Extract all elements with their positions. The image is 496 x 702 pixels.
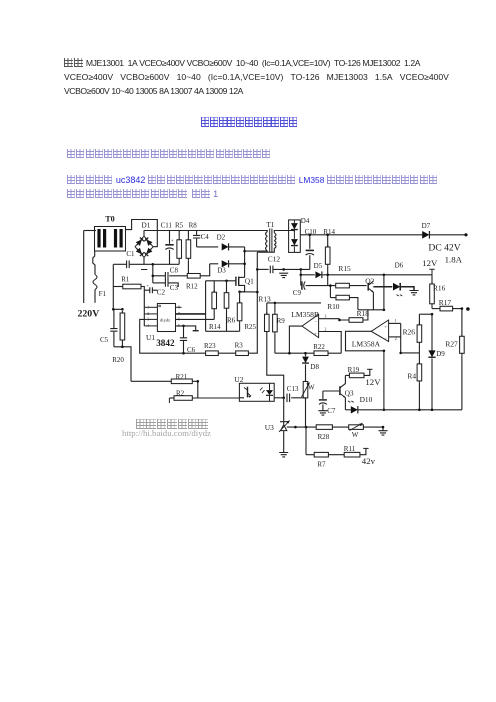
wire bbox=[319, 332, 342, 354]
svg-text:R25: R25 bbox=[244, 323, 256, 331]
capacitor C13 plates bbox=[287, 394, 290, 403]
wire bbox=[461, 309, 463, 337]
wire bbox=[274, 303, 276, 312]
ground right of W2 bbox=[379, 431, 388, 435]
wire bbox=[418, 314, 420, 325]
wire bbox=[305, 398, 307, 427]
resistor R11 bbox=[344, 452, 360, 457]
svg-text:R8: R8 bbox=[189, 222, 198, 230]
diode D7 symbol bbox=[422, 231, 429, 239]
svg-text:W: W bbox=[308, 384, 315, 392]
svg-text:220V: 220V bbox=[78, 309, 100, 320]
svg-text:D8: D8 bbox=[310, 363, 319, 371]
wire bbox=[229, 246, 245, 248]
wire: Q3 collector bbox=[340, 375, 346, 387]
diode D3 symbol bbox=[222, 260, 229, 267]
svg-text:R3: R3 bbox=[235, 341, 244, 349]
wire bbox=[322, 404, 324, 410]
wire: R14/R6/R25 bottom bus bbox=[206, 330, 240, 332]
resistor R2 bbox=[174, 396, 192, 401]
capacitor C13 bbox=[282, 397, 285, 400]
wire bbox=[305, 427, 307, 455]
wire bbox=[266, 303, 268, 314]
svg-text:3: 3 bbox=[325, 315, 327, 319]
wire bbox=[197, 246, 219, 248]
resistor R13 vert bbox=[266, 312, 268, 333]
diode D6 symbol bbox=[393, 283, 400, 291]
svg-text:D5: D5 bbox=[314, 262, 323, 270]
svg-text:C11: C11 bbox=[161, 222, 173, 230]
svg-text:R2: R2 bbox=[176, 389, 185, 397]
wire bbox=[363, 310, 368, 320]
svg-text:R23: R23 bbox=[204, 342, 216, 350]
wire: down to R21 bbox=[114, 347, 131, 382]
op-amp U1B LM358B bbox=[302, 314, 319, 337]
wire: 12V rail to right bbox=[322, 274, 432, 276]
wire bbox=[431, 358, 433, 409]
wire bbox=[218, 352, 235, 354]
U2 phototransistor bbox=[247, 387, 249, 398]
wire bbox=[431, 314, 433, 351]
svg-text:R22: R22 bbox=[313, 343, 325, 351]
svg-text:C7: C7 bbox=[327, 407, 336, 415]
svg-text:2: 2 bbox=[395, 337, 397, 341]
wire bbox=[389, 336, 401, 338]
wire bbox=[229, 263, 245, 265]
svg-text:R11: R11 bbox=[344, 445, 356, 453]
wire bbox=[345, 374, 349, 376]
wire: T0 to bridge AC right bbox=[126, 220, 158, 247]
wire bbox=[453, 308, 462, 310]
wire bbox=[291, 397, 305, 399]
svg-text:R17: R17 bbox=[439, 298, 452, 307]
svg-text:C9: C9 bbox=[293, 289, 302, 297]
wire bbox=[226, 310, 228, 331]
svg-text:4: 4 bbox=[147, 324, 149, 328]
capacitor C5 plates bbox=[110, 329, 117, 332]
wire: fb riser bbox=[400, 323, 402, 353]
IC U1 UC3842 bbox=[157, 304, 175, 332]
12V tap tick bbox=[429, 269, 434, 275]
wire: gate drive riser bbox=[205, 281, 207, 332]
svg-text:R7: R7 bbox=[317, 460, 326, 468]
wire bbox=[183, 326, 185, 338]
rectifier D4 block bbox=[289, 220, 301, 253]
wire bbox=[257, 268, 268, 270]
svg-text:R20: R20 bbox=[112, 356, 124, 364]
wire bbox=[176, 313, 206, 315]
bridge minus tick bbox=[141, 269, 147, 271]
wire bbox=[169, 275, 187, 277]
svg-text:R6: R6 bbox=[227, 317, 236, 325]
wire bbox=[305, 353, 307, 356]
wire: C12 node down to C9 bbox=[300, 269, 302, 285]
resistor R22 bbox=[314, 351, 328, 356]
wire bbox=[239, 323, 241, 332]
wire: source to R25 bbox=[239, 292, 241, 303]
wire bbox=[360, 448, 366, 454]
svg-text:R1: R1 bbox=[121, 275, 130, 283]
svg-text:12V: 12V bbox=[422, 258, 438, 268]
wire bbox=[275, 352, 306, 354]
wire bbox=[169, 231, 171, 244]
wire: DC- drop to C8/C3 bbox=[152, 264, 154, 283]
wire bbox=[389, 322, 401, 324]
wire: T1 secondary top to D4 bbox=[274, 231, 294, 233]
resistor R9 vert bbox=[274, 312, 276, 334]
wire: bridge top lead bbox=[143, 231, 145, 237]
resistor R25 vertical bbox=[239, 301, 241, 323]
resistor R8 bbox=[187, 238, 189, 260]
svg-text:D1: D1 bbox=[141, 221, 150, 230]
wire: R9 down to bus bbox=[274, 334, 276, 353]
wire bbox=[144, 289, 150, 291]
wire: R15 to Q2 bbox=[349, 285, 366, 287]
svg-text:R5: R5 bbox=[175, 222, 184, 230]
wire bbox=[306, 352, 315, 354]
wire: T1 primary bottom to Q1 drain bbox=[245, 250, 268, 252]
wire bbox=[283, 431, 285, 453]
capacitor C3 plates bbox=[165, 279, 168, 287]
wire bbox=[327, 235, 329, 247]
wire bbox=[305, 364, 307, 381]
transistor Q1 (MOSFET) bbox=[235, 277, 237, 286]
wire bbox=[210, 263, 219, 265]
svg-text:1.8A: 1.8A bbox=[445, 254, 463, 264]
wire: output loop to bias node bbox=[346, 331, 384, 351]
resistor R15 bbox=[336, 283, 350, 288]
paragraph 1 (violet) bbox=[67, 144, 271, 162]
wire: Q1 gate bbox=[206, 280, 236, 282]
svg-text:R12: R12 bbox=[186, 283, 198, 291]
transistor Q3 bbox=[339, 386, 341, 395]
transformer T1 bbox=[270, 229, 272, 253]
svg-text:Q1: Q1 bbox=[245, 276, 254, 285]
diode D5 symbol bbox=[315, 271, 321, 278]
wire bbox=[183, 341, 185, 353]
wire bbox=[283, 398, 285, 422]
wire: Q3 base bbox=[323, 390, 340, 392]
wire bbox=[328, 352, 341, 354]
svg-text:U1: U1 bbox=[146, 333, 155, 342]
wire bbox=[358, 309, 384, 311]
wire bbox=[373, 286, 392, 288]
wire: C1 left bbox=[113, 263, 126, 265]
wire bbox=[382, 427, 384, 430]
diode D4a bbox=[291, 223, 298, 229]
top spec paragraph (black) bbox=[64, 58, 420, 68]
diode D9 symbol bbox=[428, 350, 435, 357]
wire bbox=[383, 351, 385, 410]
wire bbox=[267, 302, 321, 304]
transformer T0 (line filter) bbox=[95, 227, 126, 252]
svg-text:T1: T1 bbox=[266, 220, 275, 229]
svg-text:C10: C10 bbox=[305, 228, 317, 236]
resistor R14 vertical bbox=[213, 290, 215, 311]
svg-text:D4: D4 bbox=[301, 217, 310, 225]
wire bbox=[309, 255, 311, 269]
svg-text:D2: D2 bbox=[217, 234, 226, 242]
resistor R3 bbox=[236, 351, 249, 356]
fuse F1 bbox=[93, 275, 97, 290]
wire bbox=[213, 311, 215, 320]
wire bbox=[289, 326, 302, 353]
resistor R2 bbox=[168, 398, 170, 403]
svg-text:R4: R4 bbox=[407, 371, 416, 380]
paragraph 2 line 2 bbox=[67, 184, 218, 202]
svg-text:C5: C5 bbox=[100, 336, 109, 344]
output terminal - bbox=[466, 307, 470, 311]
svg-text:U3: U3 bbox=[265, 423, 274, 432]
resistor R7 bbox=[314, 452, 328, 457]
svg-text:T0: T0 bbox=[105, 214, 115, 223]
pot W2 body bbox=[349, 425, 364, 430]
svg-text:8: 8 bbox=[178, 306, 180, 310]
svg-text:R16: R16 bbox=[433, 283, 446, 292]
wire: T0 bottom to fuse bbox=[93, 251, 95, 275]
ground at C12 bbox=[279, 273, 288, 277]
wire: to C5/R20 bbox=[113, 287, 122, 310]
svg-text:2: 2 bbox=[147, 312, 149, 316]
wire bbox=[418, 344, 420, 353]
diode D10 symbol bbox=[351, 406, 358, 413]
wire bbox=[176, 318, 215, 320]
svg-text:C4: C4 bbox=[201, 233, 210, 241]
wire: Q2 emitter down bbox=[372, 292, 374, 310]
capacitor C12 plates bbox=[270, 266, 273, 274]
svg-text:F1: F1 bbox=[99, 290, 107, 298]
wire bbox=[306, 454, 314, 456]
svg-text:R14: R14 bbox=[209, 323, 221, 331]
wire bbox=[113, 332, 115, 347]
capacitor C11 plates bbox=[165, 244, 173, 246]
svg-text:2: 2 bbox=[325, 327, 327, 331]
wire: U2 out bbox=[274, 397, 284, 399]
blue centered title bbox=[201, 113, 298, 131]
svg-text:C2: C2 bbox=[157, 289, 166, 297]
wire bbox=[330, 297, 336, 299]
resistor R10 bbox=[336, 295, 349, 300]
svg-text:D7: D7 bbox=[422, 222, 431, 230]
wire: U1 bottom bus bbox=[140, 319, 206, 353]
watermark bbox=[136, 415, 209, 433]
resistor R21 bbox=[171, 379, 192, 384]
wire: AC live vertical bbox=[83, 231, 85, 304]
wire: to T0 top-left bbox=[84, 230, 96, 232]
svg-text:U2: U2 bbox=[234, 375, 243, 384]
resistor R12 bbox=[187, 274, 200, 279]
capacitor C9 (electrolytic) bbox=[301, 281, 303, 289]
svg-text:LM358B: LM358B bbox=[291, 310, 319, 319]
wire bbox=[461, 355, 463, 410]
svg-text:+: + bbox=[171, 239, 174, 244]
svg-text:1: 1 bbox=[395, 319, 397, 323]
wire: R8 to R12 node bbox=[187, 260, 189, 276]
wire bbox=[169, 250, 171, 264]
transistor Q2 bbox=[367, 283, 369, 291]
resistor R5 bbox=[178, 238, 180, 260]
wire bbox=[178, 231, 180, 238]
svg-text:C1: C1 bbox=[126, 250, 135, 258]
wire bbox=[340, 319, 350, 320]
resistor R16 vert bbox=[431, 282, 433, 306]
resistor R23 bbox=[206, 351, 219, 356]
wire bbox=[187, 231, 189, 238]
capacitor C4 plates bbox=[193, 235, 200, 238]
svg-text:C12: C12 bbox=[268, 255, 281, 264]
svg-text:R26: R26 bbox=[403, 327, 416, 336]
wire bbox=[401, 287, 414, 290]
optocoupler U2 bbox=[239, 383, 274, 401]
wire: R1 to U1 left pins bbox=[141, 287, 144, 327]
bridge rectifier D1 bbox=[135, 236, 153, 257]
wire: R2 to optocoupler U2 bbox=[192, 397, 239, 399]
svg-text:1: 1 bbox=[147, 306, 149, 310]
svg-text:R21: R21 bbox=[176, 373, 188, 381]
svg-text:D6: D6 bbox=[395, 261, 404, 269]
svg-text:42v: 42v bbox=[362, 456, 376, 466]
wire: R14 down to C9/R15 node bbox=[327, 266, 329, 286]
diode D10 bbox=[348, 401, 354, 402]
wire bbox=[431, 306, 433, 309]
wire: to output+ bbox=[430, 234, 466, 236]
wire bbox=[418, 383, 420, 410]
wire bbox=[401, 352, 420, 354]
wire bbox=[322, 391, 324, 399]
svg-text:R15: R15 bbox=[338, 264, 351, 273]
wire: Q2 collector bbox=[368, 281, 373, 285]
svg-text:Q2: Q2 bbox=[365, 277, 374, 286]
diode D4b bbox=[291, 239, 298, 245]
svg-text:R19: R19 bbox=[348, 366, 360, 374]
wire: bottom rail bbox=[358, 409, 462, 411]
svg-text:7: 7 bbox=[178, 312, 180, 316]
paragraph 2 line 1 bbox=[67, 170, 438, 188]
wire bbox=[121, 342, 123, 347]
svg-text:diydz: diydz bbox=[160, 318, 170, 323]
wire bbox=[153, 275, 166, 277]
svg-text:C6: C6 bbox=[187, 346, 196, 354]
ground at C7 bbox=[318, 411, 327, 415]
svg-text:+: + bbox=[147, 283, 150, 288]
svg-text:D10: D10 bbox=[360, 395, 373, 404]
resistor R4 vert bbox=[418, 362, 420, 383]
svg-text:C3: C3 bbox=[170, 284, 179, 292]
wire bbox=[178, 260, 180, 264]
wire: feedback riser to T1 bbox=[248, 252, 257, 353]
U1 right pin stubs bbox=[176, 306, 182, 308]
wire bbox=[273, 268, 310, 270]
wire bbox=[329, 286, 331, 298]
wire bbox=[364, 369, 370, 375]
wire bbox=[153, 282, 166, 284]
wire: fuse to AC terminal bbox=[94, 290, 96, 303]
resistor R28 bbox=[316, 425, 332, 430]
resistor R6 vertical bbox=[226, 291, 228, 311]
wire bbox=[309, 235, 311, 249]
op-amp U1A LM358A bbox=[371, 320, 388, 342]
wire bbox=[418, 353, 420, 364]
svg-text:R13: R13 bbox=[258, 294, 271, 303]
resistor R19 bbox=[349, 373, 364, 378]
wire bbox=[213, 281, 215, 292]
wire bbox=[419, 313, 432, 315]
wire: bridge bottom lead bbox=[143, 257, 145, 264]
resistor R26 vert bbox=[418, 323, 420, 344]
wire bbox=[196, 239, 198, 247]
capacitor C6 plates bbox=[180, 338, 187, 341]
capacitor C10 plates bbox=[306, 249, 314, 251]
ground at D6 bbox=[410, 291, 419, 295]
svg-text:W: W bbox=[352, 431, 359, 439]
wire: source sense to feedback bus bbox=[240, 291, 258, 293]
wire bbox=[169, 397, 174, 399]
svg-text:C13: C13 bbox=[287, 385, 299, 393]
wire bbox=[113, 286, 123, 288]
svg-text:LM358A: LM358A bbox=[352, 339, 381, 348]
resistor R18 bbox=[349, 318, 363, 323]
diode D2 symbol bbox=[222, 243, 229, 250]
wire bbox=[196, 231, 198, 235]
resistor R1 bbox=[123, 284, 141, 289]
capacitor C8 plates bbox=[165, 272, 168, 280]
U2 LED bbox=[266, 390, 273, 395]
wire: R21 to R2 node bbox=[192, 381, 198, 398]
svg-text:DC 42V: DC 42V bbox=[428, 242, 460, 253]
svg-text:3: 3 bbox=[147, 318, 149, 322]
svg-text:R14: R14 bbox=[323, 228, 335, 236]
svg-text:D3: D3 bbox=[217, 267, 226, 275]
wire: C9 to R15 bbox=[306, 285, 336, 287]
wire bbox=[168, 283, 178, 287]
wire bbox=[301, 274, 315, 276]
wire: R12 up to D3 bbox=[200, 264, 210, 276]
wire bbox=[176, 326, 196, 330]
svg-text:R27: R27 bbox=[445, 339, 458, 348]
wire bbox=[319, 318, 340, 320]
wire: T1 secondary bottom bbox=[257, 248, 274, 252]
ground tick at U1 pin5 bbox=[193, 330, 199, 332]
wire bbox=[345, 409, 350, 411]
pot W body bbox=[305, 380, 307, 400]
diode D8 symbol bbox=[302, 357, 309, 363]
wire bbox=[113, 309, 115, 328]
svg-text:R10: R10 bbox=[327, 302, 340, 311]
wire: DC- rail under bridge bbox=[130, 263, 180, 265]
wire: Q1 drain lead bbox=[239, 276, 245, 278]
svg-text:R18: R18 bbox=[357, 309, 370, 318]
wire bbox=[226, 281, 228, 293]
wire: R13 down to opto node bbox=[267, 334, 284, 398]
wire bbox=[152, 289, 157, 291]
resistor R17 bbox=[440, 306, 453, 311]
wire bbox=[239, 397, 244, 399]
wire bbox=[287, 426, 383, 428]
wire: D2/D3 to Q1 drain bbox=[244, 247, 246, 278]
svg-text:C8: C8 bbox=[170, 266, 179, 274]
wire bbox=[328, 454, 344, 456]
resistor R27 vert bbox=[461, 334, 463, 355]
wire: Q3 emitter to rail bbox=[344, 398, 346, 410]
svg-text:D9: D9 bbox=[436, 350, 445, 358]
output terminal + bbox=[464, 233, 467, 236]
svg-text:12V: 12V bbox=[365, 377, 381, 387]
wire: R10 to node bbox=[349, 298, 358, 310]
wire: Q1 source lead bbox=[239, 285, 245, 291]
U1 left pin stubs bbox=[144, 306, 157, 308]
resistor R14 vertical bbox=[327, 245, 329, 266]
capacitor C1 plates bbox=[127, 261, 130, 269]
